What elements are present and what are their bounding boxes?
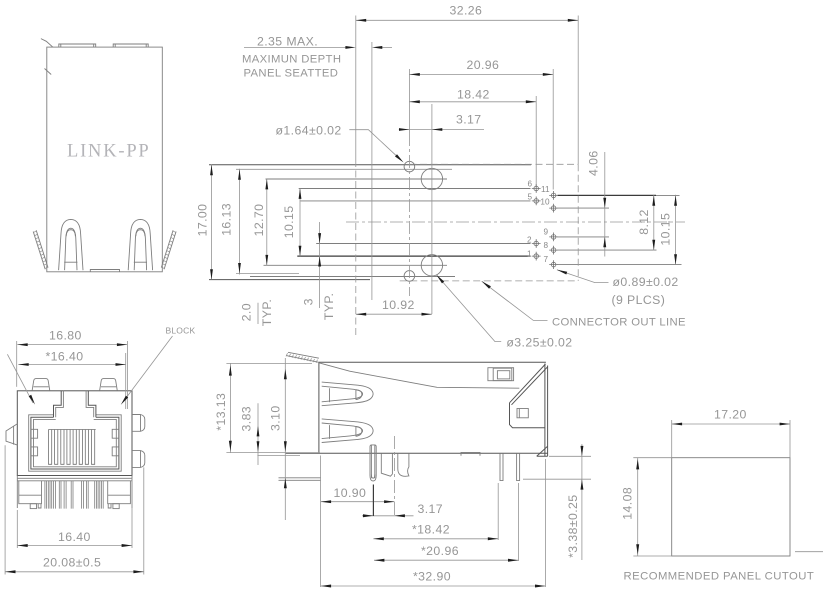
- svg-text:MAXIMUN DEPTH: MAXIMUN DEPTH: [242, 54, 341, 66]
- svg-text:*20.96: *20.96: [421, 544, 459, 558]
- svg-text:17.00: 17.00: [196, 204, 210, 237]
- svg-text:RECOMMENDED PANEL CUTOUT: RECOMMENDED PANEL CUTOUT: [624, 571, 815, 583]
- svg-text:3.10: 3.10: [269, 405, 283, 431]
- svg-text:ø1.64±0.02: ø1.64±0.02: [276, 123, 342, 137]
- svg-text:16.80: 16.80: [49, 329, 82, 343]
- svg-text:2.0: 2.0: [240, 303, 254, 321]
- svg-text:10.15: 10.15: [659, 213, 673, 246]
- svg-text:8: 8: [543, 241, 548, 250]
- svg-text:7: 7: [543, 255, 548, 264]
- svg-text:11: 11: [541, 185, 550, 194]
- svg-text:2: 2: [527, 235, 532, 244]
- svg-text:4.06: 4.06: [587, 150, 601, 176]
- svg-text:14.08: 14.08: [621, 487, 635, 520]
- svg-text:20.08±0.5: 20.08±0.5: [43, 556, 101, 570]
- svg-text:3.17: 3.17: [418, 502, 444, 516]
- svg-text:32.26: 32.26: [450, 4, 483, 18]
- svg-text:CONNECTOR OUT LINE: CONNECTOR OUT LINE: [552, 317, 686, 329]
- svg-text:(9 PLCS): (9 PLCS): [612, 293, 666, 307]
- svg-text:5: 5: [527, 192, 532, 201]
- svg-text:3.17: 3.17: [456, 113, 482, 127]
- svg-text:10.90: 10.90: [334, 486, 367, 500]
- svg-text:ø3.25±0.02: ø3.25±0.02: [506, 336, 572, 350]
- svg-text:6: 6: [527, 180, 532, 189]
- svg-text:10: 10: [540, 198, 550, 207]
- svg-text:10.92: 10.92: [382, 298, 415, 312]
- svg-text:1: 1: [527, 249, 532, 258]
- svg-text:*16.40: *16.40: [46, 350, 84, 364]
- svg-text:10.15: 10.15: [282, 206, 296, 239]
- svg-text:*3.38±0.25: *3.38±0.25: [566, 494, 580, 557]
- svg-text:TYP.: TYP.: [260, 299, 274, 326]
- svg-text:TYP.: TYP.: [322, 293, 336, 320]
- svg-text:3: 3: [301, 298, 315, 305]
- svg-text:20.96: 20.96: [467, 58, 500, 72]
- svg-text:18.42: 18.42: [457, 88, 490, 102]
- svg-text:16.13: 16.13: [219, 203, 233, 236]
- svg-text:*32.90: *32.90: [413, 569, 451, 583]
- svg-text:*18.42: *18.42: [412, 523, 450, 537]
- svg-text:3.83: 3.83: [239, 406, 253, 432]
- svg-text:17.20: 17.20: [714, 407, 747, 421]
- svg-text:*13.13: *13.13: [214, 393, 228, 431]
- svg-text:16.40: 16.40: [58, 530, 91, 544]
- svg-text:9: 9: [543, 227, 548, 236]
- svg-text:BLOCK: BLOCK: [166, 325, 196, 335]
- svg-text:LINK-PP: LINK-PP: [67, 142, 151, 162]
- svg-text:PANEL SEATTED: PANEL SEATTED: [244, 68, 339, 80]
- svg-text:8.12: 8.12: [637, 209, 651, 235]
- svg-text:2.35 MAX.: 2.35 MAX.: [257, 35, 318, 49]
- svg-text:ø0.89±0.02: ø0.89±0.02: [613, 275, 679, 289]
- svg-text:12.70: 12.70: [252, 204, 266, 237]
